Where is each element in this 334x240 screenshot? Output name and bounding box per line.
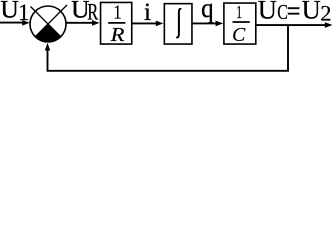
integral sign bbox=[176, 9, 181, 37]
summing junction X diagonal NE-SW with overshoot tail bbox=[35, 5, 67, 37]
svg-text:C: C bbox=[232, 24, 246, 46]
wire feedback: takeoff down, bottom run, up to summing junction bbox=[48, 25, 289, 71]
wire input U1 to summing junction bbox=[0, 22, 24, 24]
svg-text:=: = bbox=[287, 0, 301, 26]
wire summing junction to block 1/R bbox=[66, 22, 94, 24]
arrowhead feedback into summing junction bbox=[45, 43, 50, 51]
arrowhead output U2 bbox=[325, 22, 333, 28]
svg-text:U: U bbox=[258, 0, 277, 24]
wire output UC to right edge bbox=[256, 24, 327, 26]
svg-text:U: U bbox=[0, 0, 18, 24]
arrowhead into summing junction bbox=[22, 20, 30, 26]
wire integrator to block 1/C bbox=[192, 22, 217, 24]
node UC=U2 label bbox=[258, 0, 332, 26]
svg-text:i: i bbox=[144, 0, 151, 26]
svg-text:R: R bbox=[110, 25, 125, 46]
arrowhead into block 1/C bbox=[216, 21, 224, 27]
summing junction X diagonal NW-SE with overshoot tail bbox=[31, 7, 61, 37]
svg-text:U: U bbox=[302, 0, 321, 24]
node U1 label bbox=[0, 0, 29, 26]
arrowhead into integrator bbox=[156, 21, 164, 27]
block 1/R bbox=[101, 2, 132, 47]
summing junction filled minus sector (south quadrant) bbox=[35, 24, 61, 42]
node UR label bbox=[71, 0, 99, 25]
wire block 1/R to integrator bbox=[132, 22, 158, 24]
svg-text:1: 1 bbox=[113, 2, 122, 24]
svg-text:1: 1 bbox=[236, 2, 242, 22]
svg-text:q: q bbox=[201, 0, 214, 23]
svg-text:2: 2 bbox=[320, 1, 331, 26]
op block integrator bbox=[164, 4, 192, 44]
arrowhead into block 1/R bbox=[92, 20, 100, 26]
summing junction circle bbox=[30, 6, 66, 42]
block 1/C bbox=[224, 2, 256, 46]
